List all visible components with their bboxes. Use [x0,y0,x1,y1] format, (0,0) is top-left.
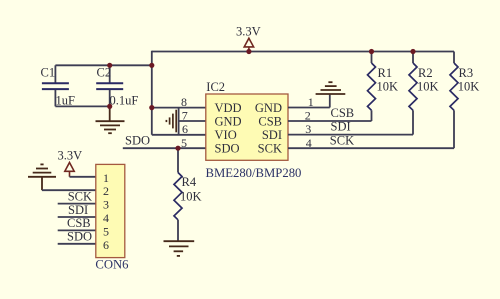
connector CON6 box [95,164,128,271]
svg-text:10K: 10K [377,80,399,94]
svg-text:4: 4 [103,211,109,225]
svg-text:1uF: 1uF [56,94,76,108]
resistor R1 [368,52,399,111]
svg-text:GND: GND [255,101,282,115]
wire pin1 GND right [288,107,330,109]
op IC2 box [206,80,302,180]
svg-text:CON6: CON6 [95,257,128,271]
svg-text:VDD: VDD [215,101,242,115]
svg-text:R1: R1 [378,66,393,80]
svg-text:6: 6 [103,238,109,252]
svg-text:SDO: SDO [215,142,240,156]
wire CON6 pin5 [58,229,96,231]
svg-text:IC2: IC2 [206,80,225,94]
wire pin3 SDI [288,134,413,136]
svg-text:SCK: SCK [330,133,354,147]
resistor R2 [409,52,439,111]
svg-text:10K: 10K [180,189,202,203]
svg-text:R4: R4 [182,175,197,189]
resistor R4 [174,148,202,241]
wire CON6 pin2 [42,189,96,191]
svg-text:CSB: CSB [258,114,282,128]
ground at CON6 pin2 (inverted) [28,164,56,190]
wire CON6 pin6 [58,243,96,245]
svg-text:2: 2 [103,184,109,198]
pin names left [215,101,242,156]
svg-text:0.1uF: 0.1uF [110,94,139,108]
wire SDO pin5 [123,147,206,149]
wire CON6 pin1 [70,176,96,178]
ground under C2 [96,106,125,133]
wire CON6 pin4 [58,216,96,218]
wire pin4 SCK [288,147,454,149]
svg-text:10K: 10K [458,80,480,94]
wire pin2 CSB [288,120,372,122]
pin names right [255,101,282,156]
wire VIO pin6 [152,134,206,136]
CON6 pin numbers [103,171,109,252]
ground at pin1 (pointing up) [316,82,346,94]
svg-text:8: 8 [181,95,187,109]
svg-text:R3: R3 [459,66,474,80]
svg-text:5: 5 [181,136,187,150]
svg-text:3.3V: 3.3V [236,24,261,38]
svg-text:3: 3 [103,198,109,212]
pin numbers right [305,95,314,150]
svg-text:3.3V: 3.3V [58,149,83,163]
svg-text:6: 6 [182,122,188,136]
svg-text:SCK: SCK [68,189,92,203]
svg-text:SDI: SDI [262,128,282,142]
wire VDD pin8 [152,107,206,109]
ground under R4 [164,241,195,256]
svg-text:VIO: VIO [215,128,237,142]
wire GND pin7 [179,120,206,122]
capacitor C2 [96,65,138,107]
svg-text:SCK: SCK [258,142,282,156]
svg-text:7: 7 [182,109,188,123]
svg-text:1: 1 [103,171,109,185]
wire caps top [55,64,151,66]
svg-text:10K: 10K [417,80,439,94]
wire top power rail [152,51,454,53]
capacitor C1 [41,65,76,107]
svg-text:CSB: CSB [67,216,91,230]
svg-text:GND: GND [215,114,242,128]
junction dots [107,49,416,151]
svg-text:SDO: SDO [67,230,92,244]
svg-text:5: 5 [103,224,109,238]
svg-text:C1: C1 [41,66,56,80]
svg-text:CSB: CSB [331,106,355,120]
resistor R3 [450,52,479,111]
svg-text:BME280/BMP280: BME280/BMP280 [206,166,302,180]
power 3.3V top [236,24,261,51]
svg-text:SDI: SDI [331,120,351,134]
wire left vertical rail [151,51,153,135]
power 3.3V at CON6 [58,149,83,177]
ground rotated at pin7 [166,110,176,133]
wire CON6 pin3 [58,203,96,205]
pin numbers left [181,95,188,150]
svg-text:R2: R2 [418,66,433,80]
svg-text:SDI: SDI [68,203,88,217]
wire caps bottom [55,105,109,107]
wire vertical link pin8-pin6 [178,108,180,135]
svg-text:SDO: SDO [125,134,150,148]
